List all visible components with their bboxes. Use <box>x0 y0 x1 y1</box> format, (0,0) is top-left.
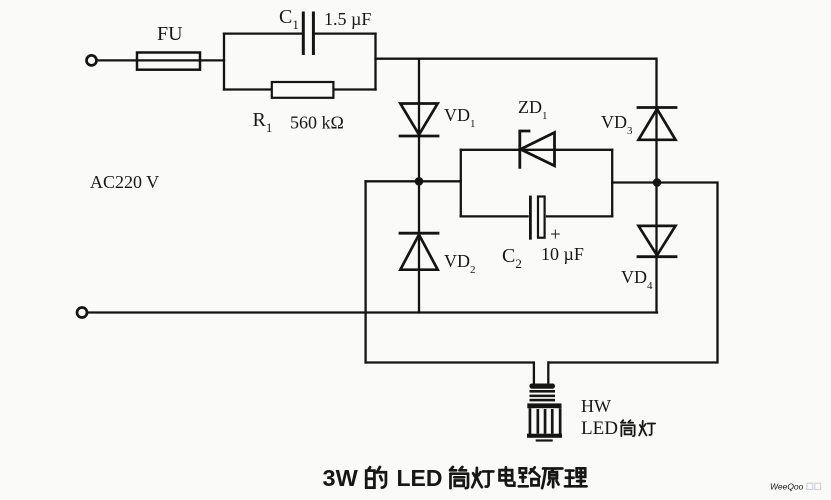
node A (left bridge output) <box>415 177 424 186</box>
node B (right bridge output) <box>653 178 662 187</box>
diode VD4 <box>638 183 676 313</box>
svg-text:LED: LED <box>581 418 618 439</box>
svg-text:3W: 3W <box>323 465 359 491</box>
capacitor C1 plates <box>303 13 313 54</box>
caption char lu <box>519 467 540 486</box>
wire: top rail to VD3 corner <box>376 59 657 108</box>
caption char yuan <box>542 469 562 489</box>
wire: outer bottom-left to lamp <box>366 363 534 385</box>
terminal bottom-left (AC input N) <box>77 308 87 318</box>
caption char dian <box>500 467 515 485</box>
svg-text:560 kΩ: 560 kΩ <box>290 113 344 133</box>
zener diode ZD1 <box>520 131 555 167</box>
fuse FU <box>137 53 200 70</box>
wire: loop bottom edge <box>224 88 376 90</box>
svg-text:FU: FU <box>157 23 183 45</box>
diode VD2 <box>400 181 438 312</box>
diode VD1 <box>400 59 438 182</box>
svg-text:AC220 V: AC220 V <box>90 172 159 192</box>
capacitor C2 plates (polarized) <box>530 197 544 239</box>
wire: node A to outer-left <box>366 180 419 182</box>
watermark WeeQoo weiku <box>770 482 821 492</box>
wire top input <box>97 59 225 61</box>
svg-text:WeeQoo: WeeQoo <box>770 482 804 492</box>
caption char tong <box>450 467 468 488</box>
svg-text:10 µF: 10 µF <box>541 244 584 264</box>
terminal top-left (AC input L) <box>87 55 97 65</box>
svg-text:HW: HW <box>581 396 611 416</box>
caption char de <box>366 467 386 488</box>
wire: loop right vertical <box>374 34 376 90</box>
caption char deng <box>472 468 493 487</box>
wire: node B to outer-right, down, and bottom to lamp <box>549 183 718 363</box>
wire: loop left vertical <box>223 34 225 90</box>
svg-text:LED: LED <box>397 465 443 491</box>
svg-text:1.5 µF: 1.5 µF <box>324 9 371 29</box>
resistor R1 <box>272 82 334 98</box>
svg-text:+: + <box>550 225 561 246</box>
caption char li <box>565 468 587 486</box>
wire: loop top edge left of C1 <box>224 32 302 34</box>
wire bottom AC line <box>87 311 657 313</box>
wire: loop top edge right of C1 <box>315 32 376 34</box>
diode VD3 <box>638 108 676 183</box>
label char deng (lamp label) <box>639 421 655 436</box>
wire: node A to middle box <box>419 180 461 182</box>
wire: lamp right stem <box>547 363 549 385</box>
wire: box to node B <box>612 181 657 183</box>
label char tong (lamp label) <box>621 420 635 436</box>
middle box (ZD1 / C2 loop) <box>461 150 612 217</box>
wire: outer-left vertical <box>364 181 366 362</box>
lamp HW LED downlight <box>527 384 562 442</box>
